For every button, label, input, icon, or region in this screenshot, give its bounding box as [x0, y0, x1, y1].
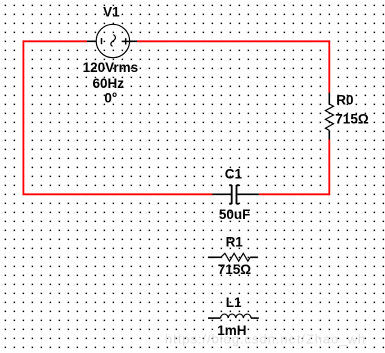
svg-text:120Vrms: 120Vrms — [83, 60, 139, 75]
svg-text:50uF: 50uF — [219, 207, 251, 222]
wire: top-left + left + bottom-left (red) — [23, 41, 212, 194]
svg-text:715Ω: 715Ω — [218, 262, 252, 277]
wire: bottom-right + right-lower (red) — [259, 140, 330, 195]
V1 minus terminal mark — [101, 38, 103, 44]
V1 circle — [96, 24, 129, 57]
ac source V1 — [87, 24, 137, 57]
C1 left lead — [213, 193, 231, 195]
svg-text:715Ω: 715Ω — [335, 112, 369, 127]
V1 right lead — [129, 40, 137, 42]
R0 bottom lead — [328, 130, 330, 139]
C1 right plate — [237, 185, 240, 204]
svg-text:https://blog.csdn.net/Zhao_wh: https://blog.csdn.net/Zhao_wh — [165, 332, 366, 347]
svg-text:60Hz: 60Hz — [93, 76, 125, 91]
L1 right lead — [251, 317, 259, 319]
R1 right lead — [250, 256, 258, 258]
C1 right lead — [237, 193, 258, 195]
R1 zigzag — [221, 253, 250, 261]
svg-text:C1: C1 — [225, 166, 243, 181]
V1 left lead — [87, 40, 97, 42]
resistor R0 — [325, 93, 333, 140]
capacitor C1 — [213, 185, 259, 204]
svg-text:R1: R1 — [226, 235, 244, 250]
wire: right-upper + top-right (red) — [137, 41, 329, 92]
L1 left lead — [208, 317, 221, 319]
V1 sine symbol — [111, 35, 116, 47]
C1 left plate — [229, 185, 232, 204]
R1 left lead — [208, 256, 221, 258]
L1 coil humps — [221, 314, 251, 318]
resistor R1 — [208, 253, 258, 261]
svg-text:V1: V1 — [103, 5, 120, 20]
R0 top lead — [328, 93, 330, 104]
svg-text:R0: R0 — [336, 93, 353, 108]
V1 plus terminal mark — [122, 38, 129, 44]
svg-text:L1: L1 — [226, 295, 242, 310]
R0 zigzag — [325, 104, 333, 130]
inductor L1 — [208, 314, 259, 318]
svg-text:1mH: 1mH — [217, 323, 246, 338]
svg-text:0°: 0° — [104, 90, 117, 105]
